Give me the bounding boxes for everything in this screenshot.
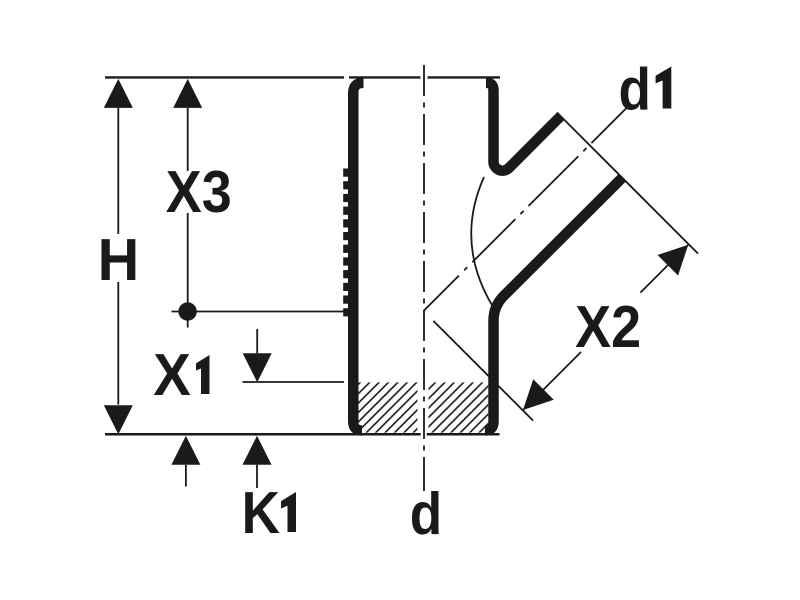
dim X2 arrow lower <box>523 379 554 410</box>
pipe right wall upper + branch upper wall (thick outline) <box>486 83 561 171</box>
svg-text:X: X <box>153 343 191 408</box>
svg-text:d: d <box>410 480 442 546</box>
dim H shaft <box>117 108 119 405</box>
pipe left wall (thick outline) <box>353 83 363 431</box>
centerline halo top <box>421 74 428 82</box>
label K1 digit 1 <box>281 492 296 532</box>
dim X1 arrow down <box>243 353 272 382</box>
centerline halo bottom <box>418 381 429 433</box>
dim K1 arrow up left <box>171 436 200 465</box>
branch lower wall + pipe right wall lower (thick outline) <box>485 178 623 431</box>
vertical centerline dash-dot <box>423 65 425 491</box>
dim H arrow up <box>104 79 133 108</box>
X1 line (insert depth line) <box>243 381 345 383</box>
dim K1 arrow up right <box>243 436 272 465</box>
dim X3 arrow up <box>173 79 202 108</box>
transition arc <box>471 177 492 306</box>
branch axis centerline dash-dot <box>424 107 628 311</box>
dim K1 shaft left <box>185 465 187 487</box>
pipe bottom edge <box>105 433 500 436</box>
top extension line <box>105 76 344 78</box>
svg-text:X3: X3 <box>166 159 232 225</box>
label d1 digit 1 <box>656 67 672 109</box>
dim X3 shaft <box>187 108 189 328</box>
dot leader line <box>172 311 345 313</box>
svg-text:H: H <box>98 227 140 293</box>
dim X1 shaft <box>256 329 258 353</box>
pipe top edge <box>349 76 500 78</box>
dim K1 shaft right <box>256 465 258 488</box>
svg-text:X2: X2 <box>575 294 641 360</box>
svg-text:K: K <box>242 479 280 545</box>
X2 extension line lower <box>433 321 533 421</box>
hatched socket area <box>359 382 489 432</box>
serration teeth <box>343 169 350 317</box>
dim H arrow down <box>104 405 133 434</box>
label X1 digit 1 <box>196 355 210 394</box>
reference dot <box>178 302 196 320</box>
dim X2 shaft <box>523 245 688 410</box>
X2 extension / mouth line <box>557 113 698 254</box>
svg-text:d: d <box>618 56 650 122</box>
dim X2 arrow upper <box>658 245 689 276</box>
